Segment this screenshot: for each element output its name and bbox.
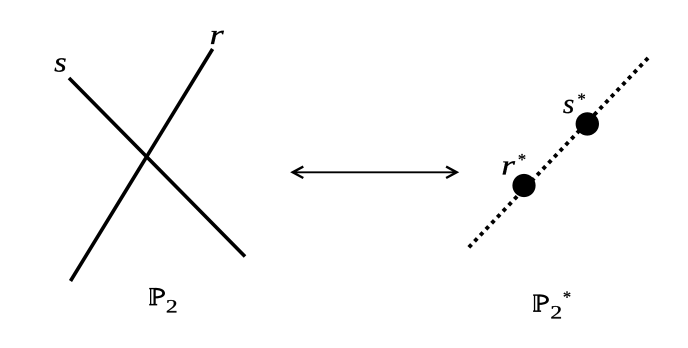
svg-text:*: * (578, 89, 586, 108)
svg-text:r: r (501, 150, 515, 181)
label P2 (blackboard bold) (149, 288, 178, 317)
svg-text:*: * (518, 150, 526, 169)
line r (71, 49, 213, 281)
svg-text:*: * (563, 287, 571, 306)
point r* (512, 174, 535, 197)
double-headed arrow (293, 167, 457, 178)
dotted (dual) line (469, 58, 648, 247)
svg-text:2: 2 (166, 296, 178, 317)
svg-text:2: 2 (550, 302, 562, 323)
svg-text:s: s (54, 46, 67, 78)
svg-text:r: r (210, 19, 224, 51)
line s (69, 78, 245, 257)
label P2* (blackboard bold) (533, 287, 571, 323)
point s* (576, 112, 599, 135)
svg-text:s: s (563, 89, 574, 120)
